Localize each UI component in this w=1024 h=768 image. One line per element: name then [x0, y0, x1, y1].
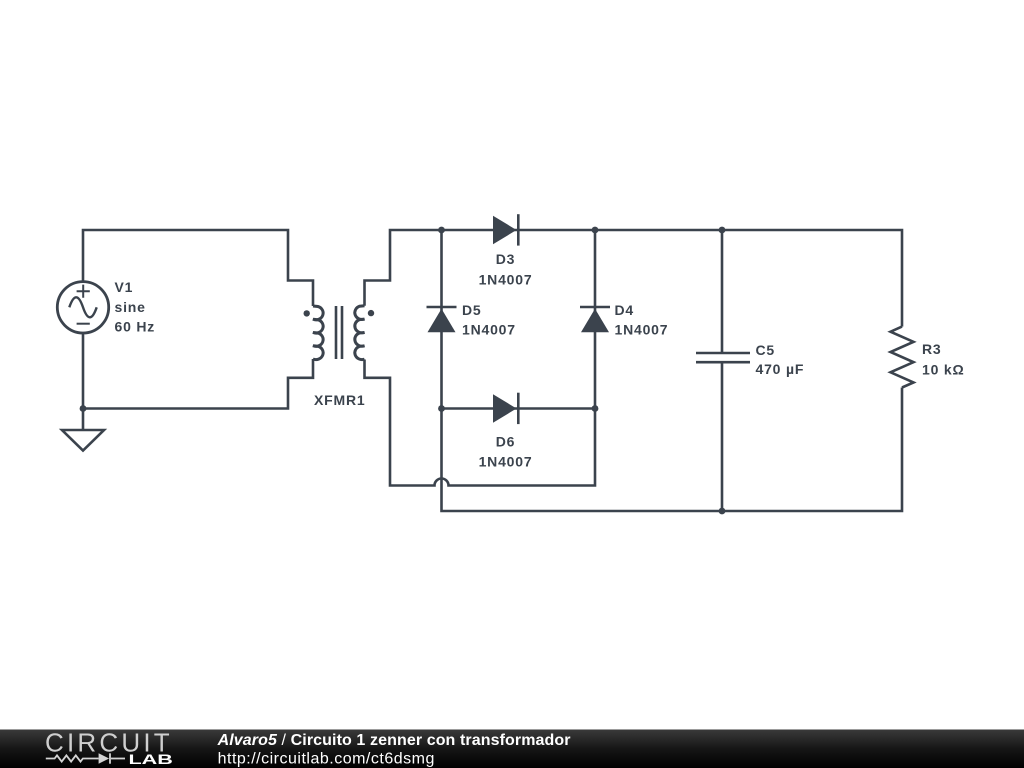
svg-text:V1: V1: [115, 279, 134, 295]
svg-text:http://circuitlab.com/ct6dsmg: http://circuitlab.com/ct6dsmg: [218, 750, 435, 767]
svg-text:D3: D3: [496, 251, 516, 267]
svg-text:D5: D5: [462, 302, 482, 318]
svg-text:1N4007: 1N4007: [462, 322, 516, 338]
svg-text:C5: C5: [756, 342, 776, 358]
svg-text:1N4007: 1N4007: [615, 322, 669, 338]
svg-text:LAB: LAB: [129, 752, 173, 767]
svg-text:sine: sine: [115, 299, 146, 315]
svg-text:D4: D4: [615, 302, 635, 318]
svg-text:10 kΩ: 10 kΩ: [922, 362, 964, 378]
svg-text:Alvaro5 / Circuito 1 zenner co: Alvaro5 / Circuito 1 zenner con transfor…: [217, 732, 571, 749]
svg-text:60 Hz: 60 Hz: [115, 319, 156, 335]
svg-text:470 µF: 470 µF: [756, 361, 805, 377]
svg-text:XFMR1: XFMR1: [314, 392, 365, 408]
svg-text:D6: D6: [496, 433, 516, 449]
svg-text:1N4007: 1N4007: [479, 453, 533, 469]
svg-text:1N4007: 1N4007: [479, 271, 533, 287]
svg-text:R3: R3: [922, 341, 942, 357]
